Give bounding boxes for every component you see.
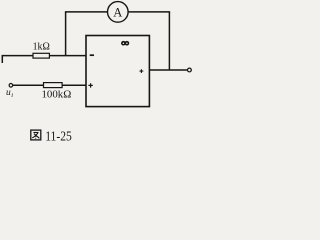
resistor R1 (1kΩ) [33, 53, 49, 58]
label ∞ (ideal op-amp gain) [122, 42, 129, 45]
caption glyph 图 (drawn) [31, 130, 41, 140]
pin +: non-inverting input mark [88, 83, 92, 87]
svg-text:u: u [6, 88, 11, 98]
pin -: inverting input mark [90, 54, 94, 56]
wire: R2 to non-inverting input [62, 84, 86, 86]
wire: R1 to inverting input [49, 55, 86, 57]
pin +: output polarity mark [140, 69, 144, 73]
wire: top rail left segment to ammeter [65, 11, 108, 13]
ammeter A [108, 2, 129, 23]
terminal: output (open circle) [188, 68, 192, 72]
svg-text:1kΩ: 1kΩ [33, 42, 50, 53]
svg-text:100kΩ: 100kΩ [42, 89, 72, 101]
svg-text:i: i [11, 92, 13, 99]
resistor R2 (100kΩ) [44, 83, 63, 88]
wire: right drop from top rail to output node [168, 12, 170, 70]
wire: u_i terminal to R2 [13, 84, 44, 86]
wire: output to terminal [149, 69, 187, 71]
terminal: input u_i (open circle) [9, 84, 13, 88]
wire: top rail right segment from ammeter [128, 11, 170, 13]
op-amp U1 (ideal, box symbol) [86, 36, 149, 107]
wire: left input stub with down hook [2, 56, 33, 63]
svg-text:11-25: 11-25 [45, 130, 72, 145]
svg-text:A: A [113, 5, 122, 19]
wire: feedback riser (node at R1 output up to ammeter rail) [65, 12, 67, 56]
